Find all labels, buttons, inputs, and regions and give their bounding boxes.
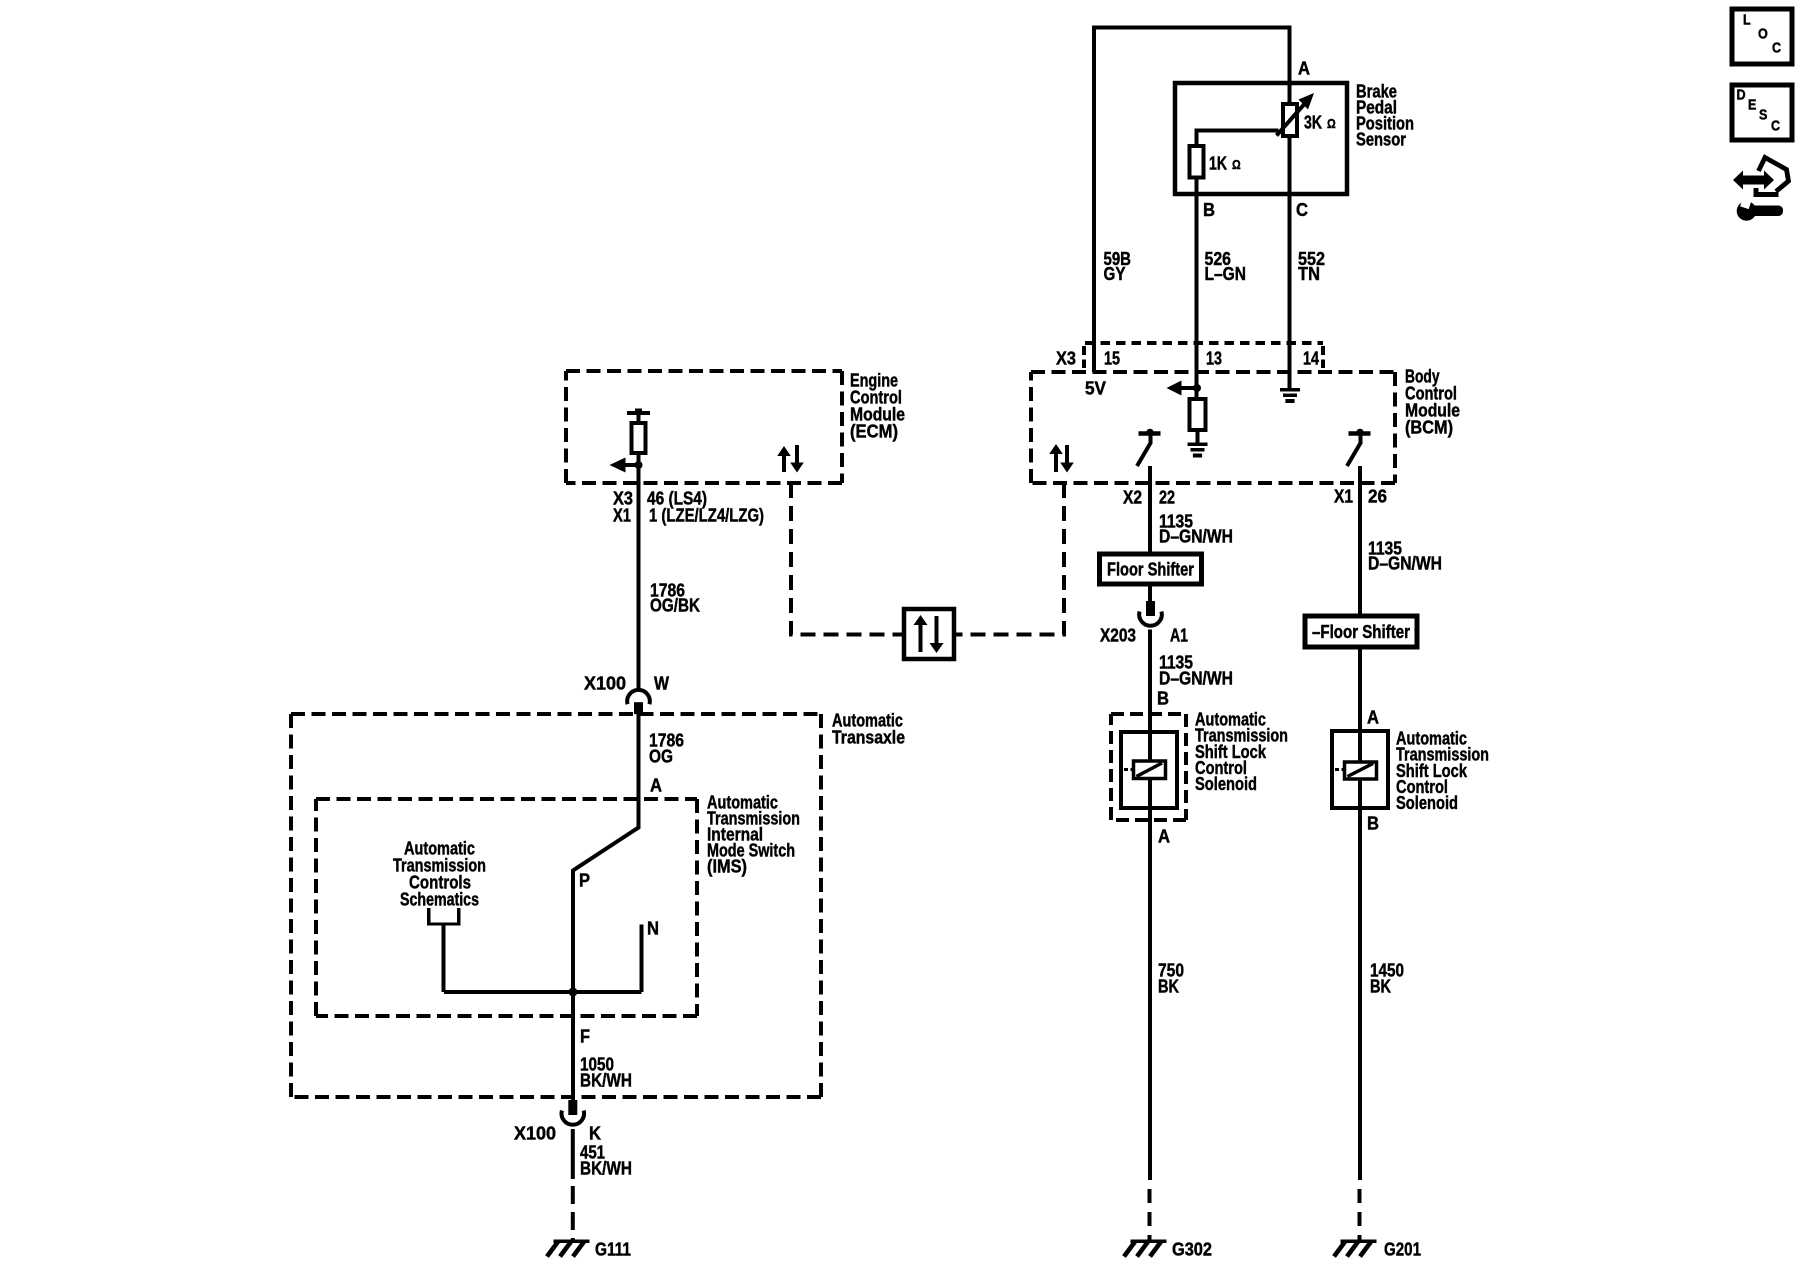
- connector X100 pin K: [568, 1100, 577, 1115]
- svg-text:D: D: [1737, 86, 1746, 103]
- svg-text:B: B: [1203, 200, 1215, 220]
- svg-text:X2: X2: [1123, 487, 1142, 507]
- svg-text:13: 13: [1206, 348, 1222, 368]
- wire from switch to BCM edge: [1358, 466, 1362, 483]
- svg-text:GY: GY: [1104, 264, 1126, 284]
- BCM internal ground for pin 13: [1188, 443, 1208, 447]
- svg-text:K: K: [589, 1123, 601, 1143]
- floor shifter box (right): [1305, 616, 1417, 647]
- svg-text:Ω: Ω: [1232, 157, 1241, 172]
- wire pin A to pin C through sensor: [1288, 83, 1292, 343]
- serial data dashed wire gateway to BCM: [956, 483, 1064, 635]
- svg-text:1K: 1K: [1209, 153, 1227, 173]
- shift lock control solenoid (right): [1332, 731, 1388, 808]
- BCM driver switch X2-22: [1139, 431, 1161, 436]
- wire pin 14 into BCM to internal ground: [1288, 343, 1292, 388]
- potentiometer 3K resistor: [1283, 104, 1297, 136]
- BCM driver switch X1-26: [1349, 431, 1371, 436]
- wire 5V supply loop from BCM pin 15 to sensor pin A: [1094, 28, 1290, 373]
- svg-text:A: A: [650, 775, 662, 795]
- connector X203 pin A1: [1146, 601, 1155, 616]
- ground G111: [554, 1240, 590, 1244]
- wire 1786 OG inside transaxle: [637, 714, 641, 799]
- svg-text:Sensor: Sensor: [1356, 129, 1406, 149]
- svg-text:B: B: [1157, 688, 1169, 708]
- svg-text:L–GN: L–GN: [1205, 264, 1247, 284]
- svg-text:S: S: [1759, 106, 1767, 123]
- shift lock control solenoid (left): [1121, 732, 1177, 808]
- serial data gateway symbol: [904, 609, 954, 659]
- svg-text:X1: X1: [1334, 486, 1353, 506]
- svg-text:P: P: [579, 870, 590, 890]
- svg-text:F: F: [580, 1026, 590, 1046]
- svg-text:Ω: Ω: [1327, 116, 1336, 131]
- wire 1786 OG/BK from ECM: [637, 483, 641, 689]
- brake pedal position sensor box: [1175, 83, 1347, 194]
- svg-text:BK/WH: BK/WH: [580, 1158, 632, 1178]
- svg-text:Solenoid: Solenoid: [1195, 774, 1257, 794]
- svg-text:A: A: [1367, 707, 1379, 727]
- svg-text:X3: X3: [1056, 348, 1076, 368]
- automatic transaxle dashed box: [291, 712, 821, 716]
- wire pin B down from 1K resistor: [1195, 178, 1199, 344]
- wire 1450 BK to ground: [1358, 808, 1362, 1180]
- svg-text:OG: OG: [649, 746, 673, 766]
- svg-text:OG/BK: OG/BK: [650, 595, 700, 615]
- svg-text:C: C: [1771, 117, 1780, 134]
- svg-text:1 (LZE/LZ4/LZG): 1 (LZE/LZ4/LZG): [649, 505, 764, 525]
- connector X100 pin W: [627, 690, 650, 704]
- BCM serial data arrows: [1054, 452, 1058, 472]
- svg-text:22: 22: [1159, 487, 1175, 507]
- potentiometer wiper arrow: [1277, 105, 1305, 136]
- svg-text:X203: X203: [1100, 625, 1136, 645]
- wire floor shifter to X203: [1148, 584, 1152, 601]
- ECM serial data arrows: [782, 454, 786, 472]
- internal mode switch IMS dashed box: [316, 797, 697, 801]
- svg-text:D–GN/WH: D–GN/WH: [1368, 553, 1442, 573]
- wire 1135 D-GN/WH from BCM X2-22: [1148, 483, 1152, 554]
- ECM internal resistor: [632, 423, 646, 453]
- solenoid coil element: [1345, 762, 1377, 779]
- svg-text:TN: TN: [1298, 264, 1320, 284]
- shift lock solenoid dashed outline: [1111, 712, 1186, 716]
- svg-text:–Floor Shifter: –Floor Shifter: [1312, 622, 1410, 642]
- wiper wire to 1K resistor: [1197, 131, 1279, 147]
- wire to solenoid pin A: [1358, 647, 1362, 731]
- BCM pull-up resistor on pin 13: [1190, 399, 1206, 430]
- solenoid coil element: [1134, 761, 1166, 779]
- svg-text:W: W: [654, 673, 669, 693]
- wire resistor to internal ground: [1196, 430, 1200, 443]
- wire 1135 D-GN/WH from BCM X1-26: [1358, 483, 1362, 616]
- off-page fork symbol: [427, 923, 461, 926]
- svg-text:G201: G201: [1384, 1239, 1421, 1259]
- 1K resistor: [1190, 146, 1204, 178]
- ECM signal sense arrow: [625, 463, 639, 467]
- svg-text:G111: G111: [595, 1239, 631, 1259]
- svg-text:A: A: [1298, 58, 1310, 78]
- BCM internal ground for pin 14: [1280, 388, 1300, 392]
- svg-text:C: C: [1296, 200, 1308, 220]
- N position contact wire: [640, 925, 644, 993]
- wire 451 to ground: [571, 1129, 575, 1179]
- legend LOC box: [1732, 9, 1792, 64]
- legend DESC box: [1732, 85, 1792, 140]
- svg-text:(ECM): (ECM): [850, 421, 898, 441]
- svg-text:(IMS): (IMS): [707, 856, 747, 876]
- svg-text:G302: G302: [1172, 1239, 1212, 1259]
- svg-text:E: E: [1748, 96, 1756, 113]
- svg-text:D–GN/WH: D–GN/WH: [1159, 526, 1233, 546]
- svg-text:15: 15: [1104, 348, 1120, 368]
- wire from resistor to pin: [637, 453, 641, 483]
- svg-text:BK/WH: BK/WH: [580, 1070, 632, 1090]
- ECM internal supply T-bar: [627, 411, 650, 415]
- ground G302: [1131, 1240, 1167, 1244]
- svg-text:Transaxle: Transaxle: [832, 727, 905, 747]
- svg-text:Floor Shifter: Floor Shifter: [1107, 559, 1194, 579]
- engine control module ECM dashed box: [566, 369, 842, 373]
- svg-text:A: A: [1158, 826, 1170, 846]
- svg-text:26: 26: [1368, 486, 1387, 506]
- svg-text:Schematics: Schematics: [400, 889, 479, 909]
- svg-text:5V: 5V: [1085, 378, 1106, 398]
- svg-text:X1: X1: [613, 505, 631, 525]
- svg-text:BK: BK: [1158, 976, 1179, 996]
- svg-text:X100: X100: [584, 673, 626, 693]
- svg-text:(BCM): (BCM): [1405, 417, 1453, 437]
- connector X3 row of BCM: [1085, 341, 1323, 345]
- floor shifter box: [1100, 554, 1202, 584]
- wire pin F 1050 BK/WH: [571, 992, 575, 1100]
- wire to shift lock solenoid pin B: [1148, 630, 1152, 733]
- svg-text:X100: X100: [514, 1123, 556, 1143]
- serial data dashed wire ECM to gateway: [791, 483, 902, 635]
- legend data-link connector icon: [1733, 171, 1774, 190]
- svg-text:A1: A1: [1170, 625, 1188, 645]
- svg-text:Solenoid: Solenoid: [1396, 793, 1458, 813]
- svg-text:3K: 3K: [1304, 112, 1322, 132]
- svg-text:BK: BK: [1370, 976, 1391, 996]
- svg-text:14: 14: [1303, 348, 1319, 368]
- svg-text:C: C: [1772, 39, 1781, 56]
- wire 750 BK to ground: [1148, 808, 1152, 1180]
- wire to transmission controls schematics: [442, 925, 446, 992]
- body control module BCM dashed box: [1031, 370, 1395, 374]
- svg-text:N: N: [647, 918, 659, 938]
- svg-text:O: O: [1758, 25, 1768, 42]
- svg-text:L: L: [1743, 11, 1751, 28]
- ground G201: [1341, 1240, 1377, 1244]
- wire from switch to BCM edge: [1148, 466, 1152, 483]
- signal sense arrow at pin 13: [1181, 386, 1197, 390]
- svg-text:B: B: [1367, 813, 1379, 833]
- svg-text:D–GN/WH: D–GN/WH: [1159, 668, 1233, 688]
- wire pin 13 into BCM: [1195, 343, 1199, 399]
- IMS common bus wire: [444, 990, 642, 994]
- IMS wiper wire from pin A to P position: [573, 799, 639, 992]
